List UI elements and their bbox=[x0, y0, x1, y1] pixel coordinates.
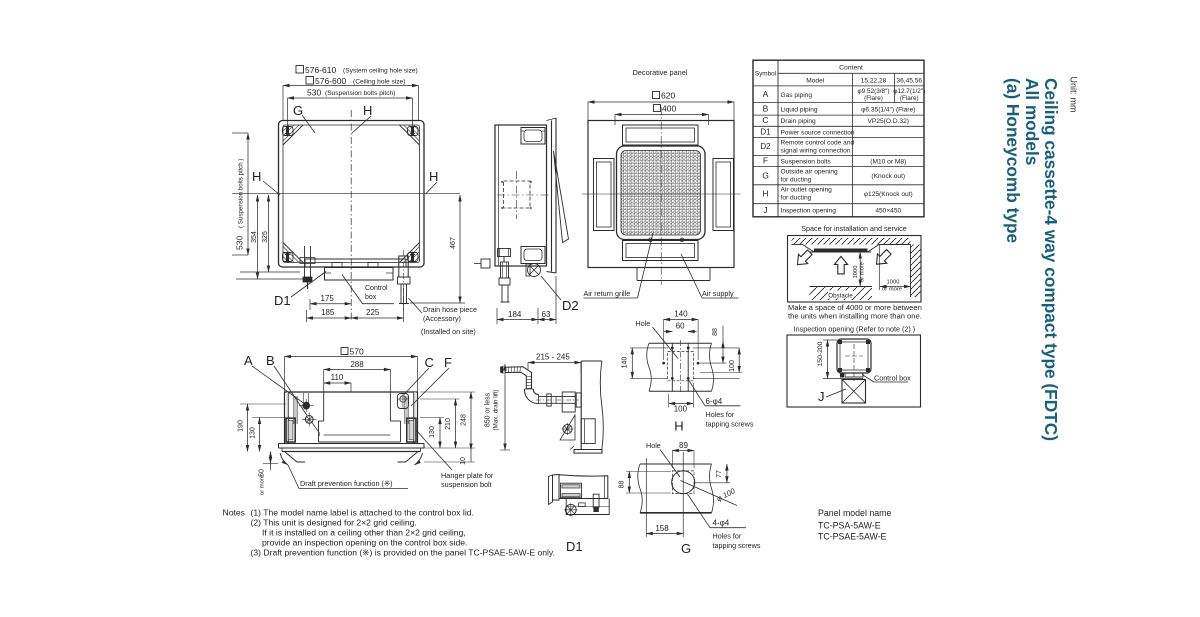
svg-text:10: 10 bbox=[460, 457, 467, 465]
svg-text:530: 530 bbox=[235, 236, 245, 250]
svg-text:288: 288 bbox=[350, 360, 364, 369]
svg-text:φ9.52(3/8"): φ9.52(3/8") bbox=[858, 88, 890, 95]
svg-text:Model: Model bbox=[806, 77, 824, 84]
svg-text:1000: 1000 bbox=[887, 280, 900, 286]
svg-text:G: G bbox=[762, 171, 769, 181]
svg-text:Outside air opening: Outside air opening bbox=[781, 169, 839, 176]
svg-text:210: 210 bbox=[445, 418, 452, 430]
svg-text:F: F bbox=[763, 156, 768, 166]
svg-text:400: 400 bbox=[662, 104, 676, 114]
svg-text:( Suspension bolts pitch ): ( Suspension bolts pitch ) bbox=[238, 159, 245, 228]
svg-text:354: 354 bbox=[251, 231, 258, 243]
svg-text:φ6.35(1/4") (Flare): φ6.35(1/4") (Flare) bbox=[861, 106, 915, 113]
svg-text:Air supply: Air supply bbox=[702, 289, 734, 298]
svg-text:D2: D2 bbox=[562, 298, 579, 313]
svg-text:G: G bbox=[293, 103, 303, 118]
svg-text:(3) Draft prevention function: (3) Draft prevention function (※) is pro… bbox=[251, 548, 555, 558]
svg-text:190: 190 bbox=[238, 420, 245, 432]
svg-text:(Ceiling hole size): (Ceiling hole size) bbox=[353, 79, 405, 86]
svg-text:If it is installed on a ceilin: If it is installed on a ceiling other th… bbox=[262, 528, 466, 538]
svg-text:D2: D2 bbox=[760, 142, 771, 151]
svg-text:Inspection opening: Inspection opening bbox=[781, 208, 837, 215]
svg-text:(Accessory): (Accessory) bbox=[423, 314, 461, 323]
svg-text:Hole: Hole bbox=[636, 319, 651, 328]
svg-text:Panel model name: Panel model name bbox=[818, 508, 891, 518]
svg-text:Gas piping: Gas piping bbox=[781, 92, 813, 99]
svg-text:Air outlet opening: Air outlet opening bbox=[781, 187, 833, 194]
svg-text:H: H bbox=[429, 169, 438, 184]
svg-text:100: 100 bbox=[729, 360, 736, 372]
svg-text:225: 225 bbox=[366, 308, 380, 317]
svg-text:TC-PSA-5AW-E: TC-PSA-5AW-E bbox=[818, 521, 881, 531]
svg-text:576-610: 576-610 bbox=[305, 65, 336, 75]
svg-text:(Refer to note (2) ): (Refer to note (2) ) bbox=[856, 325, 915, 334]
svg-text:H: H bbox=[252, 169, 261, 184]
svg-text:A: A bbox=[244, 353, 253, 368]
svg-text:(Max. drain lift): (Max. drain lift) bbox=[493, 390, 500, 431]
svg-text:Control box: Control box bbox=[874, 374, 911, 383]
svg-text:77: 77 bbox=[716, 470, 723, 478]
svg-text:Symbol: Symbol bbox=[755, 71, 776, 78]
svg-text:B: B bbox=[266, 353, 275, 368]
svg-text:Hanger plate for: Hanger plate for bbox=[441, 471, 494, 480]
svg-text:VP25(O.D.32): VP25(O.D.32) bbox=[868, 118, 909, 125]
svg-text:φ12.7(1/2"): φ12.7(1/2") bbox=[893, 88, 925, 95]
svg-text:suspension bolt: suspension bolt bbox=[441, 480, 492, 489]
svg-text:(M10 or M8): (M10 or M8) bbox=[870, 158, 906, 165]
svg-text:467: 467 bbox=[450, 237, 457, 249]
svg-text:130: 130 bbox=[429, 426, 436, 438]
svg-text:Inspection opening: Inspection opening bbox=[794, 325, 854, 334]
svg-text:576-600: 576-600 bbox=[315, 76, 346, 86]
svg-text:570: 570 bbox=[350, 347, 364, 357]
svg-text:Unit: mm: Unit: mm bbox=[1069, 77, 1079, 113]
svg-text:(Flare): (Flare) bbox=[900, 95, 919, 102]
svg-text:A: A bbox=[763, 89, 769, 99]
svg-text:215 - 245: 215 - 245 bbox=[536, 353, 570, 362]
svg-text:(Flare): (Flare) bbox=[864, 95, 883, 102]
svg-text:Control: Control bbox=[365, 285, 388, 292]
svg-text:or more: or more bbox=[882, 287, 902, 293]
svg-text:850 or less: 850 or less bbox=[485, 392, 492, 427]
svg-text:Content: Content bbox=[839, 65, 863, 72]
svg-text:15,22,28: 15,22,28 bbox=[861, 77, 887, 84]
svg-text:the units when installing more: the units when installing more than one. bbox=[788, 312, 922, 321]
svg-text:tapping screws: tapping screws bbox=[706, 420, 754, 429]
svg-text:Power source connection: Power source connection bbox=[781, 129, 855, 136]
svg-text:140: 140 bbox=[622, 357, 629, 369]
svg-text:C: C bbox=[425, 355, 434, 370]
svg-text:for ducting: for ducting bbox=[781, 194, 812, 201]
svg-text:Drain piping: Drain piping bbox=[781, 118, 817, 125]
svg-text:box: box bbox=[365, 294, 377, 301]
svg-text:150-200: 150-200 bbox=[817, 341, 824, 366]
svg-text:D1: D1 bbox=[566, 539, 583, 554]
svg-text:(2) This unit is designed for: (2) This unit is designed for 2×2 grid c… bbox=[251, 518, 417, 528]
svg-text:Remote control code and: Remote control code and bbox=[781, 140, 855, 147]
svg-text:(Knock out): (Knock out) bbox=[871, 173, 905, 180]
svg-text:36,45,56: 36,45,56 bbox=[896, 77, 922, 84]
svg-text:(1) The model name label is at: (1) The model name label is attached to … bbox=[251, 508, 474, 518]
svg-text:Holes for: Holes for bbox=[713, 532, 742, 541]
svg-text:88: 88 bbox=[619, 481, 626, 489]
svg-text:Obstacle: Obstacle bbox=[828, 293, 853, 300]
svg-text:130: 130 bbox=[250, 427, 257, 439]
svg-text:4-φ4: 4-φ4 bbox=[713, 519, 730, 528]
svg-text:88: 88 bbox=[712, 328, 719, 336]
svg-text:G: G bbox=[681, 541, 691, 556]
svg-text:184: 184 bbox=[508, 310, 522, 319]
svg-text:110: 110 bbox=[331, 373, 344, 382]
svg-text:J: J bbox=[818, 389, 825, 404]
svg-text:Notes: Notes bbox=[223, 508, 245, 518]
svg-text:tapping screws: tapping screws bbox=[713, 541, 761, 550]
svg-text:Liquid piping: Liquid piping bbox=[781, 106, 818, 113]
svg-text:(System ceiling hole size): (System ceiling hole size) bbox=[343, 68, 418, 75]
svg-text:185: 185 bbox=[321, 308, 335, 317]
svg-text:Decorative panel: Decorative panel bbox=[633, 68, 688, 77]
svg-text:TC-PSAE-5AW-E: TC-PSAE-5AW-E bbox=[818, 532, 887, 542]
svg-text:158: 158 bbox=[655, 524, 669, 533]
svg-text:6-φ4: 6-φ4 bbox=[706, 397, 723, 406]
svg-text:H: H bbox=[363, 103, 372, 118]
svg-text:1000: 1000 bbox=[853, 266, 859, 279]
svg-text:H: H bbox=[674, 419, 683, 434]
svg-text:provide an inspection opening: provide an inspection opening on the con… bbox=[262, 538, 467, 548]
svg-text:B: B bbox=[763, 104, 769, 114]
svg-text:Space for installation and ser: Space for installation and service bbox=[801, 224, 906, 233]
svg-text:Holes for: Holes for bbox=[706, 410, 735, 419]
svg-text:89: 89 bbox=[679, 441, 688, 450]
svg-text:or more: or more bbox=[860, 262, 866, 282]
svg-text:D1: D1 bbox=[760, 127, 771, 136]
svg-text:248: 248 bbox=[461, 414, 468, 426]
svg-text:J: J bbox=[763, 205, 767, 215]
svg-text:530: 530 bbox=[307, 88, 321, 98]
svg-text:D1: D1 bbox=[274, 293, 291, 308]
svg-text:Draft prevention function (※): Draft prevention function (※) bbox=[300, 479, 393, 488]
svg-text:Suspension bolts: Suspension bolts bbox=[781, 158, 832, 165]
svg-text:Make a space of 4000 or more b: Make a space of 4000 or more between bbox=[788, 303, 922, 312]
svg-text:Drain hose piece: Drain hose piece bbox=[423, 305, 477, 314]
svg-text:for ducting: for ducting bbox=[781, 176, 812, 183]
svg-text:F: F bbox=[444, 355, 452, 370]
svg-text:signal wiring connection: signal wiring connection bbox=[781, 147, 851, 154]
svg-text:100: 100 bbox=[674, 405, 688, 414]
svg-text:or more: or more bbox=[260, 475, 266, 495]
svg-text:Hole: Hole bbox=[646, 441, 661, 450]
svg-text:C: C bbox=[762, 115, 768, 125]
svg-text:H: H bbox=[762, 189, 768, 199]
svg-text:325: 325 bbox=[262, 231, 269, 243]
svg-text:φ125(Knock out): φ125(Knock out) bbox=[864, 191, 913, 198]
svg-text:60: 60 bbox=[676, 322, 685, 331]
svg-text:620: 620 bbox=[661, 91, 675, 101]
svg-text:140: 140 bbox=[674, 310, 688, 319]
svg-text:175: 175 bbox=[321, 294, 335, 303]
svg-text:Air return grille: Air return grille bbox=[584, 289, 631, 298]
svg-text:(Installed on site): (Installed on site) bbox=[421, 327, 476, 336]
svg-text:450×450: 450×450 bbox=[875, 208, 901, 215]
svg-text:63: 63 bbox=[542, 310, 551, 319]
svg-text:(Suspension bolts pitch): (Suspension bolts pitch) bbox=[325, 90, 395, 97]
